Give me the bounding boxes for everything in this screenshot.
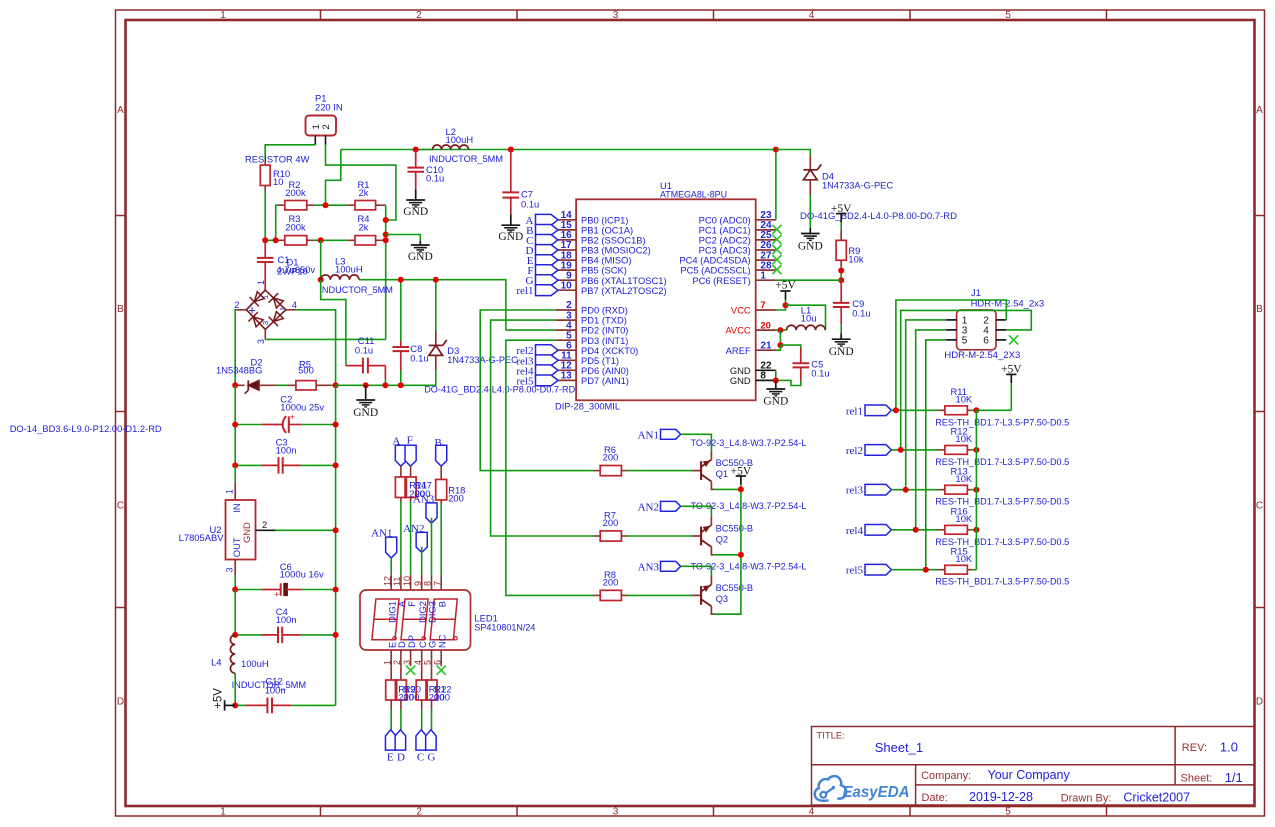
svg-text:D: D bbox=[117, 697, 124, 708]
svg-text:4: 4 bbox=[809, 806, 815, 817]
svg-text:7: 7 bbox=[432, 581, 442, 586]
U1 pin 2 PD0 bbox=[556, 309, 576, 311]
display LED1 body bbox=[360, 590, 471, 650]
ground GND at C9 bbox=[840, 334, 842, 340]
U1 pin 19 PB5 bbox=[556, 269, 576, 271]
wire AREF pin21 bbox=[776, 345, 781, 350]
svg-text:8: 8 bbox=[423, 581, 433, 586]
wire bridge pin3 to R4 vertical bbox=[265, 338, 385, 340]
svg-text:20: 20 bbox=[760, 319, 770, 330]
netport rel1 bbox=[865, 405, 891, 416]
netport F bbox=[536, 265, 559, 276]
ground GND at C10 bbox=[415, 189, 417, 200]
svg-text:1N5348BG: 1N5348BG bbox=[216, 364, 262, 375]
wire rel2 row bbox=[891, 449, 938, 451]
svg-text:2k: 2k bbox=[359, 222, 369, 233]
wire R3 row left segment bbox=[265, 239, 277, 241]
wire R11 to +5V bbox=[976, 409, 1011, 411]
U1 pin 18 PB4 bbox=[556, 259, 576, 261]
capacitor C11 bbox=[346, 365, 363, 367]
U1 pin 10 PB7 bbox=[556, 289, 576, 291]
svg-text:11: 11 bbox=[392, 577, 402, 586]
voltage regulator U2 bbox=[234, 482, 236, 500]
wire rel1 row bbox=[891, 409, 938, 411]
wire main top rail bbox=[341, 149, 776, 151]
svg-text:1: 1 bbox=[220, 10, 226, 21]
capacitor C3 row wires bbox=[235, 464, 261, 466]
svg-text:2: 2 bbox=[392, 660, 402, 665]
netport C bbox=[536, 235, 559, 246]
wire PD2 to L3 row bbox=[506, 329, 556, 331]
svg-text:DP: DP bbox=[406, 635, 417, 648]
svg-text:200: 200 bbox=[448, 493, 464, 504]
svg-text:2: 2 bbox=[262, 520, 267, 531]
wire rel3 row bbox=[891, 489, 938, 491]
svg-text:Q2: Q2 bbox=[716, 534, 729, 545]
svg-text:GND: GND bbox=[241, 522, 252, 543]
svg-text:A: A bbox=[1256, 105, 1263, 116]
svg-text:10K: 10K bbox=[956, 553, 973, 564]
svg-text:+5V: +5V bbox=[212, 688, 224, 709]
U1 pin 6 PD4 bbox=[556, 349, 576, 351]
resistor R22 bbox=[431, 666, 433, 680]
svg-text:100uH: 100uH bbox=[446, 134, 474, 145]
svg-text:A: A bbox=[117, 105, 124, 116]
wire Q2 emitter bbox=[714, 554, 741, 556]
capacitor C9 bbox=[840, 280, 842, 303]
svg-text:rel5: rel5 bbox=[516, 375, 534, 387]
svg-text:B: B bbox=[436, 601, 447, 607]
bridge diode upper-right bbox=[273, 298, 283, 308]
svg-text:10K: 10K bbox=[956, 433, 973, 444]
svg-text:Date:: Date: bbox=[922, 792, 948, 804]
connector P1 bbox=[306, 116, 337, 136]
node GND branch junction bbox=[383, 232, 389, 238]
wire AN3 to Q3 collector bbox=[681, 566, 712, 575]
J1 pin leads bbox=[946, 319, 957, 321]
node L3-top junction bbox=[318, 237, 324, 243]
svg-text:INDUCTOR_5MM: INDUCTOR_5MM bbox=[319, 284, 393, 295]
node rel5 junction bbox=[923, 567, 929, 573]
node C4 right bbox=[333, 632, 339, 638]
bridge diode lower-left bbox=[253, 317, 263, 327]
wire J1 pin2 to rel1 bbox=[896, 300, 1006, 410]
U1 pin 12 PD6 bbox=[556, 369, 576, 371]
netport AN3 bbox=[661, 561, 681, 571]
node R2-R1 junction bbox=[323, 202, 329, 208]
bridge diode lower-right bbox=[273, 312, 283, 322]
svg-text:0.1u: 0.1u bbox=[410, 353, 428, 364]
wire AN1 to Q1 collector bbox=[681, 434, 712, 451]
wire R5 to gnd row bbox=[331, 384, 335, 386]
svg-text:PD7 (AIN1): PD7 (AIN1) bbox=[581, 375, 629, 386]
wire R9 to reset node bbox=[840, 266, 842, 280]
svg-text:3: 3 bbox=[402, 660, 412, 665]
wire C11 to gnd row bbox=[384, 379, 386, 385]
node C2 left bbox=[232, 422, 238, 428]
wire C11 left branch bbox=[321, 280, 346, 366]
wire R14 to LED pin11 bbox=[400, 502, 402, 575]
svg-text:rel4: rel4 bbox=[846, 525, 864, 537]
svg-text:C: C bbox=[1256, 501, 1263, 512]
svg-text:0.1u: 0.1u bbox=[811, 368, 829, 379]
svg-text:2k: 2k bbox=[359, 187, 369, 198]
wire L3 output row bbox=[359, 280, 506, 330]
svg-text:10: 10 bbox=[402, 576, 412, 586]
wire P1 pin1 to R10 bbox=[265, 145, 315, 161]
node R4 right junction bbox=[383, 237, 389, 243]
svg-text:Cricket2007: Cricket2007 bbox=[1123, 791, 1190, 805]
netport rel2 bbox=[865, 445, 891, 456]
svg-text:Q1: Q1 bbox=[716, 468, 729, 479]
svg-text:1: 1 bbox=[261, 295, 270, 299]
svg-text:200: 200 bbox=[603, 577, 619, 588]
svg-text:GND: GND bbox=[798, 240, 823, 252]
U1 pin 5 PD3 bbox=[556, 339, 576, 341]
no-connect X marks pins 24-28 bbox=[772, 225, 781, 234]
node C6 left bbox=[232, 587, 238, 593]
svg-text:1: 1 bbox=[256, 280, 266, 285]
resistor R17 bbox=[410, 466, 412, 477]
svg-text:3: 3 bbox=[261, 321, 270, 325]
wire R17 to LED pin10 bbox=[410, 502, 412, 575]
node P1 wire junction bbox=[383, 217, 389, 223]
resistor R3 bbox=[278, 239, 285, 241]
svg-text:100n: 100n bbox=[276, 444, 297, 455]
capacitor C1 bbox=[264, 240, 266, 258]
svg-text:rel1: rel1 bbox=[846, 405, 863, 417]
svg-text:0.1u: 0.1u bbox=[426, 173, 444, 184]
svg-text:D: D bbox=[1256, 697, 1263, 708]
svg-text:J1: J1 bbox=[971, 287, 981, 298]
resistor R6 bbox=[594, 470, 601, 472]
svg-text:100uH: 100uH bbox=[335, 263, 363, 274]
wire J1 pin5 to rel5 bbox=[926, 340, 946, 570]
svg-text:3: 3 bbox=[225, 567, 235, 572]
resistor R14 bbox=[400, 466, 402, 477]
wire J1 pin3 to rel4 bbox=[916, 330, 946, 530]
bridge rectifier D1 diamond bbox=[246, 290, 285, 329]
svg-text:D: D bbox=[397, 751, 405, 763]
node R2/R3 junction bbox=[273, 237, 279, 243]
ground GND at power row bbox=[365, 385, 367, 400]
svg-text:+: + bbox=[290, 412, 296, 423]
svg-text:rel1: rel1 bbox=[516, 285, 533, 297]
node R5 right bbox=[333, 382, 339, 388]
node C8 top bbox=[398, 277, 404, 283]
svg-text:200: 200 bbox=[434, 692, 450, 703]
svg-text:GND: GND bbox=[498, 231, 523, 243]
wire rel5 row bbox=[891, 569, 938, 571]
wire C3 to U2 pin1 bbox=[234, 465, 236, 482]
svg-text:5: 5 bbox=[962, 336, 968, 347]
svg-text:BC550-B: BC550-B bbox=[716, 522, 754, 533]
U1 pin 20 AVCC bbox=[756, 329, 776, 331]
no-connect X at LED pin6 bbox=[437, 666, 446, 675]
resistor R1 bbox=[348, 204, 356, 206]
U1 pin 27 PC4 bbox=[756, 259, 776, 261]
frame row ticks right bbox=[1255, 215, 1265, 217]
wire L3 top feed bbox=[320, 240, 322, 279]
svg-text:3: 3 bbox=[256, 339, 266, 344]
wire R12 right bbox=[971, 449, 976, 451]
svg-text:PB7 (XTAL2TOSC2): PB7 (XTAL2TOSC2) bbox=[581, 285, 667, 296]
wire top rail to D4 bbox=[776, 150, 810, 156]
svg-text:GND: GND bbox=[829, 346, 854, 358]
svg-text:10K: 10K bbox=[956, 393, 973, 404]
svg-text:2: 2 bbox=[321, 124, 332, 129]
wire pin22 to pin8 bbox=[775, 370, 777, 380]
LED bottom pin leads bbox=[390, 650, 392, 666]
resistor R2 bbox=[278, 204, 285, 206]
wire C6 row to C4 row bbox=[234, 590, 236, 635]
wire PD0 to R6 bbox=[480, 310, 593, 471]
svg-text:1/1: 1/1 bbox=[1225, 770, 1243, 785]
resistor R19 bbox=[390, 666, 392, 680]
LED top pin leads bbox=[390, 575, 392, 590]
wire right rail bbox=[335, 385, 337, 705]
svg-text:3: 3 bbox=[613, 10, 619, 21]
svg-text:AREF: AREF bbox=[726, 345, 751, 356]
wire PD1 to R7 bbox=[491, 320, 594, 536]
node gnd row at C8 bbox=[398, 382, 404, 388]
svg-text:10: 10 bbox=[561, 280, 573, 291]
capacitor C4 bbox=[262, 634, 279, 636]
svg-text:1: 1 bbox=[382, 660, 392, 665]
svg-text:21: 21 bbox=[760, 340, 772, 351]
svg-text:GND: GND bbox=[403, 206, 428, 218]
wire +5V to R9 bbox=[840, 222, 842, 231]
resistor R11 bbox=[939, 409, 945, 411]
node bridge pin2 row D2 bbox=[232, 382, 238, 388]
capacitor C8 bbox=[400, 280, 402, 341]
svg-text:5: 5 bbox=[1005, 806, 1011, 817]
svg-text:10k: 10k bbox=[848, 253, 863, 264]
node C3 left bbox=[232, 462, 238, 468]
svg-text:PC6 (RESET): PC6 (RESET) bbox=[692, 275, 750, 286]
capacitor C3 bbox=[262, 464, 279, 466]
wire to ground symbol bbox=[386, 235, 421, 242]
wire R2 to R1 bbox=[314, 204, 348, 206]
svg-text:100uH: 100uH bbox=[241, 658, 269, 669]
U1 pin 7 VCC bbox=[756, 309, 776, 311]
bridge pin leads bbox=[237, 309, 247, 311]
svg-text:DO-41G_BD2.4-L4.0-P8.00-D0.7-R: DO-41G_BD2.4-L4.0-P8.00-D0.7-RD bbox=[800, 210, 957, 221]
wire R11-R15 right rail bbox=[975, 410, 977, 569]
svg-text:NC: NC bbox=[436, 634, 447, 648]
svg-text:4: 4 bbox=[809, 10, 815, 21]
wire R19 to E bbox=[390, 710, 392, 730]
resistor R5 bbox=[288, 384, 297, 386]
node +5V bottom bbox=[232, 702, 238, 708]
frame column ticks top bbox=[320, 10, 322, 20]
svg-text:EasyEDA: EasyEDA bbox=[843, 784, 910, 801]
svg-text:E: E bbox=[387, 751, 394, 763]
wire R21 to C bbox=[421, 710, 423, 730]
svg-text:0.1u: 0.1u bbox=[355, 345, 373, 356]
ground GND at U1 pin8 bbox=[775, 380, 777, 389]
ground GND at R4 node bbox=[419, 241, 421, 245]
wire emitter rail bbox=[714, 485, 741, 614]
wire AVCC pin20 bbox=[776, 329, 787, 331]
node L3 left junction bbox=[318, 277, 324, 283]
node U2 gnd right rail bbox=[333, 527, 339, 533]
svg-text:ATMEGA8L-8PU: ATMEGA8L-8PU bbox=[660, 189, 727, 200]
title block frame bbox=[812, 727, 1255, 806]
svg-text:1000u 25v: 1000u 25v bbox=[280, 401, 324, 412]
wire P1 pin2 to R1 node bbox=[326, 145, 396, 220]
netport C bbox=[416, 730, 427, 750]
svg-text:HDR-M-2.54_2X3: HDR-M-2.54_2X3 bbox=[944, 349, 1020, 360]
svg-text:REV:: REV: bbox=[1182, 742, 1207, 754]
svg-text:BC550-B: BC550-B bbox=[716, 582, 754, 593]
svg-text:rel5: rel5 bbox=[846, 565, 864, 577]
connector J1 bbox=[957, 310, 996, 350]
zener diode D2 bbox=[235, 384, 244, 386]
svg-text:1N4733A-G-PEC: 1N4733A-G-PEC bbox=[447, 354, 518, 365]
node GND pin8 bbox=[773, 377, 779, 383]
svg-text:DO-14_BD3.6-L9.0-P12.00-D1.2-R: DO-14_BD3.6-L9.0-P12.00-D1.2-RD bbox=[10, 423, 162, 434]
netport E bbox=[536, 255, 559, 266]
node R9 bottom bbox=[838, 268, 844, 274]
svg-text:F: F bbox=[406, 601, 417, 607]
wire rel4 row bbox=[891, 529, 938, 531]
wire U2 pin2 to right rail bbox=[276, 529, 336, 531]
wire C5 to GND pins bbox=[776, 380, 801, 385]
svg-text:RES-TH_BD1.7-L3.5-P7.50-D0.5: RES-TH_BD1.7-L3.5-P7.50-D0.5 bbox=[935, 576, 1069, 587]
svg-text:1: 1 bbox=[225, 489, 235, 494]
svg-text:8: 8 bbox=[760, 371, 766, 382]
ground GND at D4 bbox=[809, 228, 811, 234]
capacitor C2 (polarized) bbox=[262, 424, 284, 426]
node R13 right bbox=[973, 487, 979, 493]
svg-text:Sheet:: Sheet: bbox=[1181, 772, 1213, 784]
svg-text:10: 10 bbox=[273, 176, 283, 187]
no-connect X at LED pin3 bbox=[406, 666, 415, 675]
node R11 right bbox=[973, 407, 979, 413]
wire AN2 to LED pin9 bbox=[421, 547, 423, 575]
wire R8 to Q3 base bbox=[627, 594, 692, 596]
netport rel5 bbox=[865, 564, 891, 575]
wire Q1 emitter bbox=[714, 488, 741, 490]
wire R22 to G bbox=[431, 710, 433, 730]
netport G bbox=[426, 730, 437, 750]
svg-text:AN1: AN1 bbox=[638, 429, 659, 441]
wire D4 to ground bbox=[809, 195, 811, 228]
svg-text:1N4733A-G-PEC: 1N4733A-G-PEC bbox=[822, 180, 893, 191]
netport rel2 bbox=[536, 345, 559, 356]
wire AN2 to Q2 collector bbox=[681, 506, 712, 516]
svg-text:1000u 16v: 1000u 16v bbox=[280, 569, 324, 580]
wire VCC to L1 right bbox=[786, 305, 826, 330]
capacitor C6 (polarized) bbox=[262, 589, 281, 591]
frame column ticks bottom bbox=[320, 806, 322, 816]
node reset row bbox=[838, 277, 844, 283]
node top rail D4 branch bbox=[773, 147, 779, 153]
resistor R13 bbox=[939, 489, 945, 491]
U1 pin 24 PC1 bbox=[756, 229, 776, 231]
LED1 digit 3 dp bbox=[454, 637, 457, 640]
svg-text:IN: IN bbox=[231, 503, 242, 512]
LED1 digit 1 bbox=[372, 599, 399, 640]
svg-text:2: 2 bbox=[416, 806, 422, 817]
svg-text:+5V: +5V bbox=[775, 280, 796, 292]
netport AN2 bbox=[661, 501, 681, 511]
svg-text:rel2: rel2 bbox=[846, 445, 863, 457]
capacitor C4 row wires bbox=[235, 634, 261, 636]
LED1 digit 3 bbox=[430, 599, 457, 640]
wire L4 to bottom row bbox=[234, 673, 236, 705]
U1 pin 8 GND bbox=[756, 379, 776, 381]
svg-text:1: 1 bbox=[760, 270, 766, 281]
U1 pin 15 PB1 bbox=[556, 229, 576, 231]
svg-text:RESISTOR 4W: RESISTOR 4W bbox=[245, 153, 310, 164]
node rel1 junction bbox=[893, 407, 899, 413]
node rel4 junction bbox=[913, 527, 919, 533]
transistor Q1 bbox=[691, 470, 701, 472]
netport E bbox=[385, 730, 396, 750]
wire R1/R4 right vertical bbox=[385, 205, 387, 339]
resistor R8 bbox=[594, 594, 601, 596]
node C3 right bbox=[333, 462, 339, 468]
node Q2 emitter bbox=[738, 552, 744, 558]
netport rel3 bbox=[536, 355, 559, 366]
no-connect X at J1 pin6 bbox=[1009, 335, 1018, 344]
netport rel4 bbox=[865, 525, 891, 536]
svg-text:Your Company: Your Company bbox=[988, 768, 1071, 782]
LED1 digit 1 dp bbox=[393, 637, 396, 640]
svg-text:B: B bbox=[117, 304, 124, 315]
wire R15 right bbox=[971, 569, 976, 571]
wire R13 right bbox=[971, 489, 976, 491]
svg-text:2WP10: 2WP10 bbox=[277, 266, 308, 277]
resistor R10 bbox=[264, 160, 266, 165]
U1 pin 26 PC3 bbox=[756, 249, 776, 251]
node Q1 emitter bbox=[738, 486, 744, 492]
frame row ticks left bbox=[116, 215, 126, 217]
resistor R7 bbox=[594, 535, 601, 537]
wire D2 to R5 bbox=[276, 384, 288, 386]
wire R16 right bbox=[971, 529, 976, 531]
svg-text:100n: 100n bbox=[276, 614, 297, 625]
svg-text:GND: GND bbox=[408, 251, 433, 263]
wire J1 pin1 to rel3 bbox=[906, 320, 946, 490]
U1 pin 13 PD7 bbox=[556, 379, 576, 381]
wire R7 to Q2 base bbox=[627, 535, 692, 537]
netport rel1 bbox=[536, 285, 559, 296]
resistor R21 bbox=[421, 666, 423, 680]
svg-text:GND: GND bbox=[763, 396, 788, 408]
svg-text:200: 200 bbox=[603, 517, 619, 528]
capacitor C12 row wires bbox=[235, 704, 245, 706]
svg-text:TO-92-3_L4.8-W3.7-P2.54-L: TO-92-3_L4.8-W3.7-P2.54-L bbox=[691, 437, 807, 448]
wire R11 right bbox=[971, 409, 976, 411]
svg-text:5: 5 bbox=[423, 660, 433, 665]
svg-text:DIP-28_300MIL: DIP-28_300MIL bbox=[555, 401, 620, 412]
wire U1 pin23 to top rail bbox=[775, 150, 777, 220]
resistor R4 bbox=[348, 239, 356, 241]
svg-text:-: - bbox=[279, 301, 283, 316]
wire R18 to LED pin7 bbox=[440, 504, 442, 575]
U1 pin 3 PD1 bbox=[556, 319, 576, 321]
node C2 right bbox=[333, 422, 339, 428]
svg-text:1.0: 1.0 bbox=[1220, 739, 1238, 754]
svg-text:9: 9 bbox=[413, 581, 423, 586]
svg-text:TITLE:: TITLE: bbox=[816, 731, 845, 742]
netport G bbox=[536, 275, 559, 286]
svg-text:Drawn By:: Drawn By: bbox=[1061, 793, 1112, 805]
svg-text:C: C bbox=[117, 501, 124, 512]
